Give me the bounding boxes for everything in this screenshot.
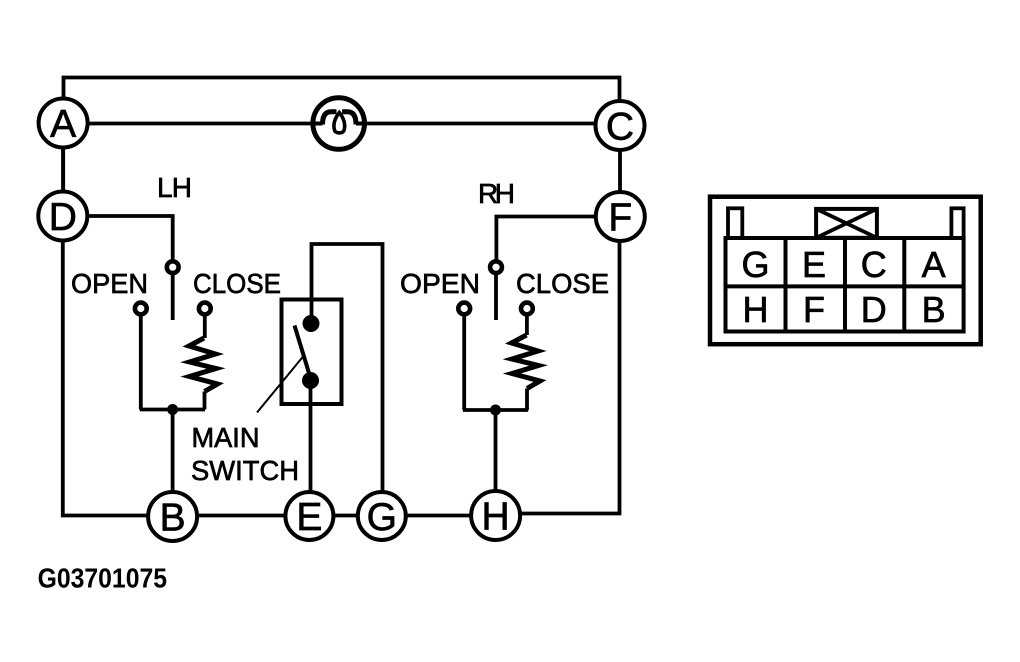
node D xyxy=(38,192,87,241)
connector shell xyxy=(710,197,981,345)
connector left tab xyxy=(728,208,742,239)
main switch bottom contact xyxy=(302,372,319,389)
LH OPEN contact xyxy=(135,303,147,315)
svg-text:SWITCH: SWITCH xyxy=(191,455,299,486)
wire main switch to G xyxy=(312,244,383,492)
LH CLOSE contact xyxy=(199,303,211,315)
wire B to E xyxy=(197,514,286,518)
node E xyxy=(285,492,333,540)
wire A to lamp to C xyxy=(87,122,596,126)
wire F to RH switch pivot xyxy=(496,217,596,261)
RH CLOSE contact xyxy=(521,303,533,315)
svg-text:B: B xyxy=(160,496,186,539)
svg-text:C: C xyxy=(861,244,887,285)
svg-text:E: E xyxy=(296,496,322,539)
wire junction RH to H xyxy=(494,410,498,492)
svg-text:RH: RH xyxy=(478,178,515,209)
node C xyxy=(596,101,645,150)
svg-text:D: D xyxy=(49,196,77,239)
node F xyxy=(596,192,645,241)
wire junction LH to B xyxy=(171,410,175,493)
node H xyxy=(471,491,520,540)
leader line to MAIN SWITCH label xyxy=(257,356,304,413)
node G xyxy=(358,492,406,540)
wire LH OPEN contact down xyxy=(139,316,143,410)
lamp (courtesy bulb) xyxy=(313,98,365,150)
LH switch pivot contact xyxy=(167,261,179,273)
connector right tab xyxy=(951,208,963,239)
svg-text:H: H xyxy=(743,289,769,330)
node A xyxy=(39,99,88,148)
resistor LH xyxy=(189,338,218,392)
wire A to D xyxy=(61,147,65,192)
junction RH xyxy=(490,405,501,416)
connector pin grid xyxy=(726,238,964,332)
wire RH CLOSE contact to resistor xyxy=(525,316,529,336)
svg-text:A: A xyxy=(922,244,946,285)
LH switch wiper arm xyxy=(171,274,175,320)
svg-text:G: G xyxy=(367,496,397,539)
wire C to F xyxy=(618,150,622,192)
wire top bus from A to C xyxy=(64,78,620,102)
main switch top contact xyxy=(303,315,320,332)
svg-text:D: D xyxy=(861,289,887,330)
svg-text:MAIN: MAIN xyxy=(192,422,260,453)
wire resistor RH to junction xyxy=(463,389,528,411)
svg-text:F: F xyxy=(803,289,825,330)
svg-text:A: A xyxy=(50,103,76,146)
junction LH xyxy=(167,404,178,415)
wire RH OPEN contact down xyxy=(462,316,466,411)
svg-text:H: H xyxy=(482,495,510,538)
RH OPEN contact xyxy=(458,303,470,315)
wire G to H xyxy=(406,514,471,518)
wire D down left border to B xyxy=(63,241,148,516)
wire F down right border to H xyxy=(521,241,620,514)
svg-text:B: B xyxy=(922,289,946,330)
resistor RH xyxy=(512,335,541,389)
wire E to G xyxy=(334,514,359,518)
svg-text:F: F xyxy=(608,196,632,239)
wire resistor LH to junction xyxy=(140,392,205,410)
wire into main switch top contact xyxy=(310,300,314,324)
svg-text:OPEN: OPEN xyxy=(400,268,480,299)
wire D to LH switch pivot xyxy=(87,216,172,260)
svg-text:OPEN: OPEN xyxy=(71,268,148,299)
svg-text:LH: LH xyxy=(157,172,192,203)
wire LH CLOSE contact to resistor xyxy=(203,316,207,339)
node B xyxy=(148,492,197,541)
RH switch wiper arm xyxy=(494,274,498,320)
main switch lever xyxy=(295,326,311,379)
svg-text:G03701075: G03701075 xyxy=(38,563,167,594)
svg-text:CLOSE: CLOSE xyxy=(193,268,281,299)
RH switch pivot contact xyxy=(490,261,502,273)
svg-text:E: E xyxy=(802,244,826,285)
svg-text:G: G xyxy=(741,244,769,285)
wire main switch bottom contact to E xyxy=(309,381,313,493)
connector keyway (bowtie) xyxy=(816,209,877,238)
main switch box xyxy=(282,300,342,405)
svg-text:CLOSE: CLOSE xyxy=(516,268,609,299)
svg-text:C: C xyxy=(606,105,634,148)
